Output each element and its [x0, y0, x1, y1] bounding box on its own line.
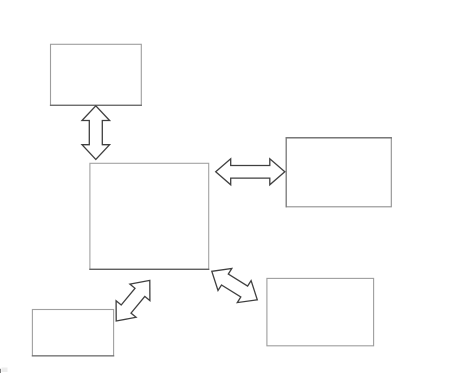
- box bottom-left: [32, 310, 113, 356]
- small corner mark bottom-left: [0, 369, 2, 373]
- faint smudge bottom-left: [2, 368, 8, 373]
- double arrow diagonal (center box to bottom-right box): [212, 269, 257, 303]
- double arrow horizontal (center box to right box): [216, 159, 285, 185]
- box top-left: [51, 44, 142, 105]
- box bottom-right: [267, 278, 374, 345]
- double arrow diagonal (center box to bottom-left box): [116, 280, 150, 321]
- box center: [90, 163, 209, 269]
- double arrow vertical (top-left box to center box): [82, 106, 110, 160]
- box right: [286, 138, 391, 207]
